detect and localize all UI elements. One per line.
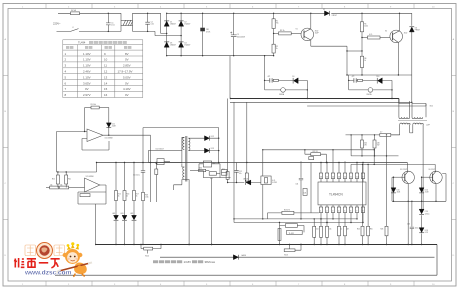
diode D10s xyxy=(377,78,382,84)
svg-text:www.dzsc.com: www.dzsc.com xyxy=(24,269,72,276)
svg-text:1.10V: 1.10V xyxy=(83,75,91,79)
svg-text:4148: 4148 xyxy=(112,126,116,128)
capacitor C11 xyxy=(141,163,145,193)
table grid xyxy=(63,40,143,98)
mascot head xyxy=(65,249,80,264)
SECTION:BRIDGE xyxy=(167,13,412,55)
svg-text:1: 1 xyxy=(320,210,321,212)
transistor Q4 xyxy=(430,171,442,183)
svg-text:472: 472 xyxy=(352,76,355,78)
svg-text:2.97V: 2.97V xyxy=(83,93,91,97)
wire U1B to bus xyxy=(95,204,97,245)
IC top pin stubs xyxy=(321,179,363,183)
wire AC live top xyxy=(58,13,161,20)
mascot crown spikes xyxy=(67,246,71,250)
mascot staff xyxy=(59,263,90,271)
wire mid rail lineA xyxy=(97,162,408,164)
wire DC- bottom rail xyxy=(167,55,274,57)
svg-text:15: 15 xyxy=(104,87,108,91)
IC top pin wires up xyxy=(321,150,363,173)
resistor R35 xyxy=(361,135,363,140)
svg-text:TL494CN: TL494CN xyxy=(329,193,343,197)
wire upper IC feed y149.8 xyxy=(263,149,374,151)
svg-text:472: 472 xyxy=(210,178,213,180)
transformer T2 winding P1 xyxy=(183,137,185,149)
wire bus right terminal xyxy=(436,245,438,276)
svg-text:220V~: 220V~ xyxy=(53,21,61,25)
svg-text:4.10V: 4.10V xyxy=(123,87,131,91)
diode D19 output xyxy=(233,255,238,260)
TABLE TL494 pin voltages xyxy=(63,40,143,98)
svg-text:V1: V1 xyxy=(296,29,298,31)
resistor R24 xyxy=(362,164,364,226)
svg-text:10: 10 xyxy=(104,58,108,62)
diode D4 1N4007 xyxy=(179,42,184,47)
resistor R33 tall xyxy=(278,229,281,241)
svg-text:472: 472 xyxy=(268,76,271,78)
svg-text:C16: C16 xyxy=(407,224,410,226)
svg-text:150k: 150k xyxy=(145,197,149,199)
svg-text:0V: 0V xyxy=(85,87,89,91)
wire T2 bottom drop xyxy=(184,179,189,244)
resistor R37 xyxy=(273,79,278,81)
wire upper link y127.6 xyxy=(143,127,219,129)
border tick right xyxy=(452,76,457,220)
driver box U2 xyxy=(149,150,182,162)
svg-text:R25: R25 xyxy=(370,229,373,231)
svg-text:V5 C2073: V5 C2073 xyxy=(400,169,407,171)
svg-text:6: 6 xyxy=(350,210,351,212)
svg-text:2200u: 2200u xyxy=(425,213,430,215)
box U5 431 xyxy=(287,230,303,234)
resistor R1 xyxy=(273,13,275,18)
svg-text:1N4007: 1N4007 xyxy=(170,24,176,26)
resistor R22 51 xyxy=(305,150,311,154)
wire emitter rail y75 xyxy=(347,74,412,76)
SECTION:SNUB xyxy=(265,56,308,99)
svg-text:1N4007: 1N4007 xyxy=(170,45,176,47)
diode D13 xyxy=(205,148,210,153)
wire AC2 jog to bridge xyxy=(155,31,181,35)
resistor R5 xyxy=(361,13,363,21)
svg-text:D18: D18 xyxy=(425,230,428,232)
svg-text:5k1: 5k1 xyxy=(316,229,319,231)
LED2 xyxy=(122,215,127,220)
inductor L2 lead xyxy=(380,134,391,137)
wire Q3 base xyxy=(392,176,405,178)
resistor R25 xyxy=(367,164,369,226)
IC bottom pin stubs xyxy=(321,205,363,207)
svg-text:16: 16 xyxy=(320,176,322,178)
svg-text:C24: C24 xyxy=(425,211,428,213)
svg-text:D12: D12 xyxy=(211,136,214,138)
junction dots output xyxy=(393,177,394,178)
mascot face xyxy=(70,256,72,258)
resistor R20 xyxy=(226,172,229,180)
svg-text:0V: 0V xyxy=(125,81,129,85)
junction dots opamp area xyxy=(84,131,85,132)
wire D16 column xyxy=(421,177,423,244)
svg-text:13.8V: 13.8V xyxy=(184,260,192,264)
svg-text:4.7k: 4.7k xyxy=(272,180,275,182)
svg-text:38Vmax: 38Vmax xyxy=(205,260,216,264)
svg-text:D13: D13 xyxy=(211,148,214,150)
svg-text:1.10V: 1.10V xyxy=(83,64,91,68)
resistor R41 xyxy=(344,213,346,227)
watermark mascot body xyxy=(57,242,93,276)
svg-text:10k: 10k xyxy=(329,229,332,231)
svg-text:1k: 1k xyxy=(276,48,278,50)
svg-text:1k: 1k xyxy=(136,196,138,198)
wire R32 stubs xyxy=(280,223,305,241)
wire Q1 emitter xyxy=(311,46,347,75)
svg-text:V2: V2 xyxy=(385,31,387,33)
transistor Q1 xyxy=(301,28,314,41)
svg-text:R26: R26 xyxy=(381,229,384,231)
junction dots rails xyxy=(202,13,203,14)
transformer T1 winding W2 xyxy=(412,104,426,118)
wire jog to R6 xyxy=(347,50,362,52)
svg-text:R23 473: R23 473 xyxy=(284,210,290,212)
svg-text:104: 104 xyxy=(296,184,299,186)
transformer T2 winding P2 xyxy=(183,167,185,179)
transformer T2 winding S1 xyxy=(188,138,190,150)
resistor R38 xyxy=(358,79,363,81)
svg-text:1k: 1k xyxy=(341,229,343,231)
fuse FU1 xyxy=(71,12,80,15)
resistor R3 base xyxy=(274,32,279,34)
wire bridge column 1 xyxy=(166,13,168,55)
wire snubber1 feed xyxy=(264,56,266,90)
bus primary 2 xyxy=(230,102,412,103)
resistor R7 base xyxy=(362,37,368,39)
resistor R23 473 xyxy=(282,211,294,214)
wire snubber2 feed xyxy=(348,75,350,90)
SECTION:T1 xyxy=(230,56,427,227)
border tick bottom xyxy=(46,281,414,286)
wire bus verticals top xyxy=(230,56,410,104)
svg-text:102F: 102F xyxy=(315,33,319,35)
wire feedback left xyxy=(84,108,86,132)
svg-text:R16: R16 xyxy=(126,194,129,196)
diode D7 series xyxy=(325,11,330,16)
svg-text:4k7: 4k7 xyxy=(347,229,350,231)
diode D15 xyxy=(391,188,396,193)
diode D8 xyxy=(409,27,414,32)
wire U1A inputs xyxy=(57,132,110,151)
resistor R31 cluster2 xyxy=(289,245,291,249)
svg-text:10k: 10k xyxy=(60,184,63,186)
wire W3 bottom leads xyxy=(391,131,413,135)
svg-text:7: 7 xyxy=(356,210,357,212)
svg-text:B12: B12 xyxy=(430,106,433,108)
svg-text:D9: D9 xyxy=(292,76,294,78)
wire S1 returns xyxy=(210,128,219,163)
resistor R13 chain xyxy=(60,186,69,189)
transformer T1 winding W3 xyxy=(400,123,411,124)
transformer T1 winding W4 xyxy=(413,123,424,124)
svg-text:14: 14 xyxy=(332,176,334,178)
wire left of IC xyxy=(310,163,312,213)
capacitor C16 xyxy=(410,201,414,244)
diode D9 xyxy=(293,78,298,84)
LED chain 3 resistor R17 xyxy=(133,163,135,191)
SECTION:QSTAGES xyxy=(272,13,362,75)
svg-text:100u: 100u xyxy=(415,227,419,229)
svg-text:D7: D7 xyxy=(323,9,325,11)
junction dots bridge xyxy=(166,13,167,14)
svg-text:1W: 1W xyxy=(377,145,380,147)
svg-text:103: 103 xyxy=(304,192,307,194)
IC bottom pin wires down xyxy=(321,213,363,227)
transistor V3 circle xyxy=(281,88,286,93)
svg-text:1N4007: 1N4007 xyxy=(184,24,190,26)
svg-text:14: 14 xyxy=(104,81,108,85)
capacitor C15 box xyxy=(303,189,307,196)
mascot legs xyxy=(73,274,85,277)
svg-text:11: 11 xyxy=(350,176,352,178)
svg-text:11: 11 xyxy=(104,64,107,68)
svg-text:9013: 9013 xyxy=(284,255,288,257)
wire vert x374 xyxy=(373,150,375,165)
svg-text:3: 3 xyxy=(332,210,333,212)
svg-text:R34: R34 xyxy=(199,168,202,170)
svg-text:15: 15 xyxy=(326,176,328,178)
transistor V7 cluster xyxy=(147,250,149,254)
diode D1 1N4007 xyxy=(164,21,169,26)
svg-text:100u/400V: 100u/400V xyxy=(237,36,246,38)
svg-text:10k: 10k xyxy=(50,184,53,186)
svg-text:FR307: FR307 xyxy=(415,30,420,32)
resistor R19 small xyxy=(155,163,157,170)
snubber1 loop xyxy=(265,80,308,98)
transistor V4 circle xyxy=(368,88,373,93)
svg-text:13: 13 xyxy=(104,75,108,79)
caption bottom text xyxy=(153,260,216,264)
svg-text:12: 12 xyxy=(104,70,108,74)
wire below IC y222.5 xyxy=(234,222,363,224)
wire U6 lower xyxy=(199,164,231,245)
resistor R36 xyxy=(374,135,376,140)
junction dots IC area xyxy=(262,149,263,150)
wire U6 pins xyxy=(199,164,220,171)
thermistor body xyxy=(200,28,205,32)
svg-text:13: 13 xyxy=(338,176,340,178)
svg-text:D16: D16 xyxy=(425,190,428,192)
wire Q4 base xyxy=(422,176,433,178)
box U3 regulator xyxy=(261,176,271,185)
resistor R32 xyxy=(285,224,297,228)
resistor R28 xyxy=(320,226,323,237)
svg-text:47u: 47u xyxy=(239,173,242,175)
svg-text:R10: R10 xyxy=(52,179,55,181)
svg-text:1/2 LM358: 1/2 LM358 xyxy=(86,176,94,178)
bus third xyxy=(55,274,437,276)
wire link drop left xyxy=(142,128,144,163)
svg-text:1/2 LM358: 1/2 LM358 xyxy=(105,138,113,140)
wire below IC y218.9 xyxy=(234,218,357,220)
svg-text:1N4148: 1N4148 xyxy=(243,178,249,180)
component K1 box xyxy=(157,159,164,165)
svg-text:R11: R11 xyxy=(68,179,71,181)
svg-text:0V: 0V xyxy=(125,58,129,62)
svg-text:R17: R17 xyxy=(136,194,139,196)
svg-text:12: 12 xyxy=(344,176,346,178)
ground bus main xyxy=(96,244,437,246)
svg-text:1k: 1k xyxy=(364,60,366,62)
svg-text:5: 5 xyxy=(344,210,345,212)
transistor Q2 xyxy=(390,30,403,43)
capacitor C17 box xyxy=(209,172,216,176)
transformer T2 core xyxy=(186,136,187,182)
svg-text:0.25W: 0.25W xyxy=(272,182,277,184)
junction dots T1 xyxy=(391,98,392,99)
LED chain 1 resistor R15 xyxy=(115,163,117,191)
SECTION:WATERMARK xyxy=(14,242,92,276)
resistor R30 sense xyxy=(141,245,144,249)
op-amp U1B xyxy=(85,178,100,192)
resistor R34 xyxy=(190,170,199,172)
svg-text:2.85V: 2.85V xyxy=(123,64,131,68)
svg-text:5.00V: 5.00V xyxy=(123,75,131,79)
wire diode drop xyxy=(108,108,110,136)
wire bridge column 2 xyxy=(180,13,182,55)
optocoupler U6 box xyxy=(203,161,211,167)
wire lineB to Q4 xyxy=(351,164,435,171)
wire output drop long xyxy=(150,135,152,202)
capacitor C2 xyxy=(145,13,150,31)
wire S1 to D12 xyxy=(188,138,204,150)
capacitor C13 box xyxy=(309,157,314,160)
choke L1 xyxy=(121,20,133,25)
wire below IC y212.9 xyxy=(268,212,319,214)
watermark badge circle xyxy=(37,243,53,259)
resistor R10 xyxy=(57,172,59,175)
svg-text:1k: 1k xyxy=(126,196,128,198)
wire output box xyxy=(392,174,446,202)
capacitor C14 xyxy=(299,161,303,219)
svg-text:R18: R18 xyxy=(145,195,148,197)
svg-text:D15: D15 xyxy=(397,190,400,192)
wire U1A input column xyxy=(56,132,58,173)
bus second xyxy=(160,256,435,258)
resistor R26 xyxy=(385,226,388,236)
LED3 xyxy=(132,215,137,220)
switch K xyxy=(71,29,79,32)
wire pin6 drop xyxy=(350,213,352,223)
svg-text:C12: C12 xyxy=(239,171,242,173)
svg-text:4148: 4148 xyxy=(397,192,401,194)
junction dots Q stages xyxy=(273,13,274,14)
wire AC neutral bottom xyxy=(57,26,156,32)
thermistor RT1 xyxy=(202,13,204,55)
svg-text:2: 2 xyxy=(326,210,327,212)
resistor R11 xyxy=(65,172,67,175)
svg-text:R15: R15 xyxy=(118,194,121,196)
junction dots bus xyxy=(140,244,141,245)
svg-text:0.01: 0.01 xyxy=(151,24,154,26)
junction dots T2 xyxy=(142,162,143,163)
table header cells xyxy=(66,46,69,49)
resistor R18 xyxy=(142,192,145,200)
svg-text:8V: 8V xyxy=(125,52,129,56)
LED chain 2 resistor R16 xyxy=(124,163,126,191)
resistor R27 xyxy=(313,226,316,237)
mascot hand xyxy=(77,265,81,269)
diode D16 xyxy=(419,188,424,193)
IC U4 TL494 body xyxy=(318,182,366,205)
op-amp U1A xyxy=(87,129,103,142)
capacitor C8 xyxy=(354,78,356,82)
border tick left xyxy=(3,76,8,220)
border tick top xyxy=(46,4,414,9)
wire AC1 jog to bridge xyxy=(161,13,167,33)
svg-text:FR107: FR107 xyxy=(332,15,337,17)
svg-text:3.65V: 3.65V xyxy=(83,81,91,85)
junction dots snubbers xyxy=(264,55,265,56)
IC pin numbers top xyxy=(320,176,363,212)
svg-text:R24: R24 xyxy=(357,229,360,231)
svg-text:TL494: TL494 xyxy=(78,41,86,45)
wire D15 column xyxy=(393,177,395,201)
watermark faint text xyxy=(25,245,65,256)
transformer T1 winding W1 xyxy=(399,104,410,118)
svg-text:1.10V: 1.10V xyxy=(83,52,91,56)
bus primary 3 xyxy=(307,104,426,107)
svg-text:4.7: 4.7 xyxy=(380,132,382,134)
svg-text:R22 51: R22 51 xyxy=(313,151,318,153)
svg-text:817: 817 xyxy=(213,163,216,165)
diode D2 1N4007 xyxy=(179,21,184,26)
diode D12 xyxy=(205,136,210,141)
svg-text:0.01: 0.01 xyxy=(111,24,114,26)
wire top rail corner xyxy=(411,13,413,25)
svg-text:120k: 120k xyxy=(364,26,368,28)
wire D8 down xyxy=(411,32,413,102)
diode D3 1N4007 xyxy=(164,42,169,47)
resistor R2 xyxy=(273,33,275,44)
svg-text:0V: 0V xyxy=(125,93,129,97)
svg-text:1N4007: 1N4007 xyxy=(184,45,190,47)
wire lineA drop to Q3 xyxy=(406,163,408,172)
capacitor C1 xyxy=(106,13,111,31)
wire U1B feedback box xyxy=(78,192,106,204)
svg-text:9014: 9014 xyxy=(145,256,149,258)
wire long verticals mid xyxy=(228,99,247,223)
junction dots input xyxy=(108,13,109,14)
svg-text:1.10V: 1.10V xyxy=(83,58,91,62)
svg-text:1W: 1W xyxy=(364,145,367,147)
wire diode D14 row xyxy=(228,182,261,184)
transformer T1 core xyxy=(398,120,427,122)
snubber2 loop xyxy=(349,80,392,98)
capacitor C7 xyxy=(270,78,272,82)
resistor R6 xyxy=(361,38,363,57)
svg-text:R3 1k: R3 1k xyxy=(280,30,285,32)
diode D17 xyxy=(419,209,424,214)
resistor R9 feedback xyxy=(85,107,91,109)
svg-text:6A10: 6A10 xyxy=(242,254,246,257)
svg-text:75k: 75k xyxy=(276,23,279,25)
svg-text:C11 0.01u: C11 0.01u xyxy=(133,175,140,177)
wire stub left xyxy=(267,213,269,219)
svg-text:1k: 1k xyxy=(118,196,120,198)
capacitor C12 xyxy=(234,163,238,183)
transistor Q3 xyxy=(402,171,414,183)
svg-text:16: 16 xyxy=(104,93,108,97)
svg-text:V6 C2073: V6 C2073 xyxy=(429,169,436,171)
resistor R40 xyxy=(338,213,340,227)
